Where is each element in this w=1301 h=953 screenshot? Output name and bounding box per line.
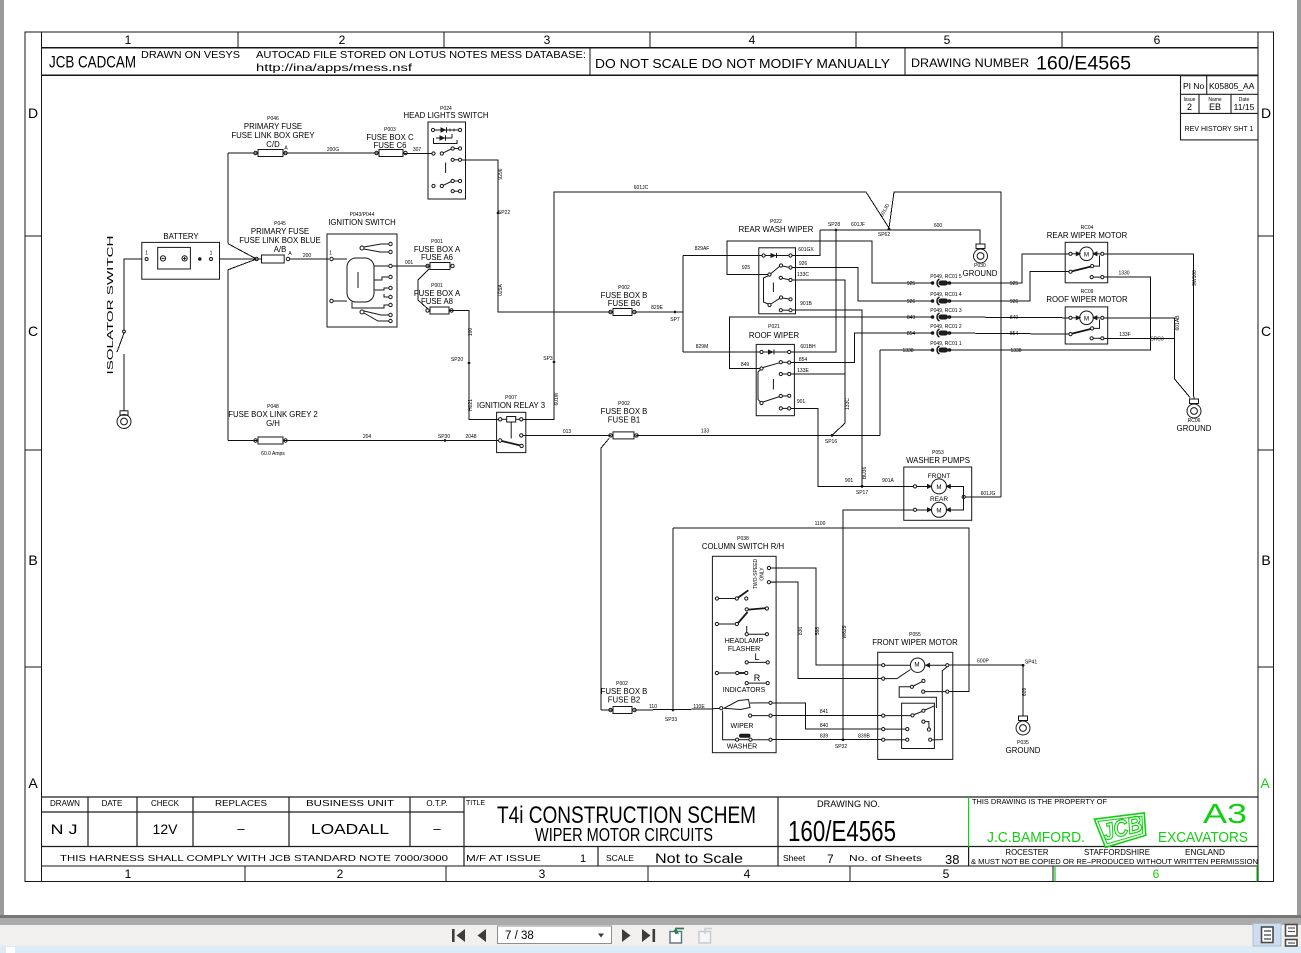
svg-text:M: M [936, 484, 941, 491]
svg-text:4: 4 [744, 867, 751, 881]
svg-text:L: L [754, 652, 759, 662]
svg-text:926: 926 [799, 261, 808, 267]
svg-text:ROOF WIPER MOTOR: ROOF WIPER MOTOR [1046, 295, 1128, 304]
svg-text:1100: 1100 [815, 521, 826, 527]
svg-text:C/D: C/D [266, 140, 280, 149]
svg-text:925: 925 [1010, 281, 1019, 287]
svg-text:PRIMARY FUSE: PRIMARY FUSE [251, 227, 309, 236]
svg-text:601GX: 601GX [798, 247, 814, 253]
svg-text:849: 849 [1010, 315, 1019, 321]
svg-text:TITLE: TITLE [466, 800, 485, 807]
svg-text:2: 2 [1187, 102, 1192, 112]
svg-text:W629: W629 [842, 625, 848, 638]
svg-text:FUSE LINK BOX BLUE: FUSE LINK BOX BLUE [239, 236, 320, 245]
svg-text:BUSINESS UNIT: BUSINESS UNIT [306, 799, 394, 808]
svg-text:SP32: SP32 [835, 744, 847, 750]
svg-text:SP22: SP22 [498, 210, 510, 216]
svg-text:SP30: SP30 [438, 434, 450, 440]
svg-text:601AB: 601AB [1175, 315, 1181, 331]
svg-text:854: 854 [1010, 331, 1019, 337]
svg-text:925: 925 [742, 265, 751, 271]
svg-text:SP28: SP28 [828, 222, 840, 228]
svg-text:FUSE A8: FUSE A8 [421, 297, 453, 306]
svg-text:1: 1 [145, 251, 148, 257]
svg-text:DRAWN: DRAWN [50, 799, 80, 808]
svg-text:2048: 2048 [465, 434, 476, 440]
svg-text:2: 2 [339, 33, 346, 47]
svg-text:6: 6 [1153, 867, 1160, 881]
svg-text:600: 600 [934, 223, 943, 229]
svg-text:609: 609 [1022, 688, 1028, 697]
svg-text:FUSE C6: FUSE C6 [374, 141, 407, 150]
svg-text:DRAWN ON VESYS: DRAWN ON VESYS [141, 49, 240, 61]
svg-text:12V: 12V [153, 821, 179, 837]
svg-text:REAR WASH WIPER: REAR WASH WIPER [739, 225, 814, 234]
svg-text:M: M [914, 662, 919, 669]
svg-text:P049, RC01 5: P049, RC01 5 [930, 274, 962, 280]
svg-text:029A: 029A [498, 284, 504, 296]
svg-text:1: 1 [210, 251, 213, 257]
svg-text:FUSE B2: FUSE B2 [608, 696, 641, 705]
svg-text:B: B [28, 552, 37, 568]
svg-text:GROUND: GROUND [1177, 424, 1212, 433]
svg-text:THIS DRAWING IS THE PROPER: THIS DRAWING IS THE PROPERTY OF [972, 799, 1107, 806]
svg-text:THIS HARNESS SHALL COMPLY: THIS HARNESS SHALL COMPLY WITH JCB STAND… [60, 853, 448, 863]
svg-text:204: 204 [363, 434, 372, 440]
svg-text:110E: 110E [693, 704, 705, 710]
svg-text:C: C [28, 323, 38, 339]
svg-text:Not to Scale: Not to Scale [655, 850, 743, 866]
svg-text:O.T.P.: O.T.P. [426, 799, 447, 808]
svg-text:A3: A3 [1203, 798, 1247, 829]
svg-text:SP41: SP41 [1025, 660, 1037, 666]
svg-text:839: 839 [820, 734, 829, 740]
svg-text:P049, RC01 2: P049, RC01 2 [930, 324, 962, 330]
svg-text:601JC: 601JC [634, 185, 649, 191]
svg-text:2: 2 [337, 867, 344, 881]
svg-text:REAR WIPER MOTOR: REAR WIPER MOTOR [1047, 231, 1128, 240]
svg-text:FUSE A6: FUSE A6 [421, 253, 453, 262]
svg-text:HEADLAMP: HEADLAMP [725, 638, 764, 645]
svg-text:JCB CADCAM: JCB CADCAM [49, 54, 136, 72]
svg-text:1: 1 [580, 853, 586, 865]
svg-text:INDICATORS: INDICATORS [723, 687, 766, 694]
svg-text:HEAD LIGHTS SWITCH: HEAD LIGHTS SWITCH [404, 111, 489, 120]
svg-text:COLUMN SWITCH R/H: COLUMN SWITCH R/H [702, 542, 784, 551]
svg-text:G/H: G/H [266, 419, 280, 428]
svg-text:REAR: REAR [930, 496, 948, 503]
svg-text:926: 926 [907, 299, 916, 305]
svg-text:600P: 600P [977, 659, 989, 665]
svg-text:WASHER PUMPS: WASHER PUMPS [906, 456, 970, 465]
svg-text:FUSE B1: FUSE B1 [608, 416, 641, 425]
svg-text:200: 200 [303, 253, 312, 259]
svg-text:7 / 38: 7 / 38 [505, 930, 534, 942]
svg-text:SCALE: SCALE [606, 853, 634, 863]
svg-text:N J: N J [51, 821, 78, 837]
svg-text:FUSE LINK BOX GREY: FUSE LINK BOX GREY [231, 131, 315, 140]
svg-text:DATE: DATE [102, 799, 123, 808]
svg-text:Sheet: Sheet [783, 853, 806, 863]
svg-text:J.C.BAMFORD.: J.C.BAMFORD. [987, 829, 1085, 846]
svg-text:ONLY: ONLY [760, 567, 766, 581]
svg-text:REPLACES: REPLACES [215, 799, 267, 808]
svg-text:926: 926 [1010, 299, 1019, 305]
svg-text:ROCESTER: ROCESTER [1006, 847, 1049, 857]
svg-text:4: 4 [749, 33, 756, 47]
svg-text:IGNITION RELAY 3: IGNITION RELAY 3 [477, 401, 545, 410]
svg-text:1338: 1338 [1010, 348, 1021, 354]
svg-text:849: 849 [907, 315, 916, 321]
svg-text:SP62: SP62 [878, 232, 890, 238]
svg-text:841: 841 [820, 709, 829, 715]
svg-text:11/15: 11/15 [1234, 102, 1255, 112]
svg-text:901A: 901A [882, 478, 894, 484]
svg-text:A: A [1260, 775, 1270, 791]
svg-text:854: 854 [799, 357, 808, 363]
svg-text:3: 3 [539, 867, 546, 881]
svg-text:160/E4565: 160/E4565 [788, 816, 896, 848]
svg-text:PRIMARY FUSE: PRIMARY FUSE [244, 122, 302, 131]
svg-text:ROOF WIPER: ROOF WIPER [749, 331, 800, 340]
svg-text:LOADALL: LOADALL [311, 821, 389, 838]
svg-text:200G: 200G [327, 147, 339, 153]
svg-text:307: 307 [413, 147, 422, 153]
svg-text:–: – [237, 821, 245, 836]
svg-text:BU36: BU36 [862, 467, 868, 480]
svg-text:7: 7 [827, 852, 834, 866]
svg-text:100: 100 [468, 328, 474, 337]
svg-text:M: M [936, 507, 941, 514]
svg-text:P049, RC01 3: P049, RC01 3 [930, 308, 962, 314]
svg-text:1: 1 [329, 251, 332, 257]
svg-text:AUTOCAD FILE STORED ON LOT: AUTOCAD FILE STORED ON LOTUS NOTES MESS … [256, 49, 586, 61]
svg-text:EB: EB [1209, 102, 1221, 112]
svg-text:PI No: PI No [1183, 81, 1205, 91]
svg-text:SRC3: SRC3 [1150, 337, 1164, 343]
svg-text:D: D [28, 105, 38, 121]
svg-text:6: 6 [1154, 33, 1161, 47]
svg-text:901: 901 [797, 399, 806, 405]
svg-text:160/E4565: 160/E4565 [1036, 54, 1131, 75]
svg-text:133E: 133E [797, 368, 809, 374]
svg-text:SP3: SP3 [543, 356, 553, 362]
svg-text:M: M [1084, 315, 1089, 322]
svg-text:925: 925 [907, 281, 916, 287]
svg-text:5: 5 [943, 867, 950, 881]
svg-text:K05805_AA: K05805_AA [1209, 81, 1255, 91]
svg-text:854: 854 [907, 331, 916, 337]
svg-text:3: 3 [544, 33, 551, 47]
svg-text:5: 5 [944, 33, 951, 47]
svg-text:1: 1 [125, 867, 132, 881]
svg-text:IGNITION SWITCH: IGNITION SWITCH [328, 218, 396, 227]
svg-text:A: A [28, 775, 38, 791]
svg-text:829E: 829E [651, 305, 663, 311]
svg-text:849: 849 [741, 362, 750, 368]
svg-text:901B: 901B [800, 301, 812, 307]
svg-text:840: 840 [820, 723, 829, 729]
svg-text:C: C [1261, 323, 1271, 339]
svg-text:P021: P021 [768, 324, 780, 330]
svg-text:R: R [754, 673, 761, 683]
svg-text:BATTERY: BATTERY [163, 232, 199, 241]
svg-text:839B: 839B [858, 734, 870, 740]
svg-text:9W100: 9W100 [1192, 270, 1198, 286]
svg-text:P049, RC01 1: P049, RC01 1 [930, 341, 962, 347]
svg-text:A/B: A/B [274, 245, 287, 254]
svg-text:WIPER MOTOR CIRCUITS: WIPER MOTOR CIRCUITS [535, 825, 713, 845]
svg-text:B: B [1261, 552, 1270, 568]
svg-text:STAFFORDSHIRE: STAFFORDSHIRE [1084, 847, 1150, 857]
svg-text:133: 133 [701, 429, 710, 435]
svg-text:DO NOT SCALE DO NOT MODIF: DO NOT SCALE DO NOT MODIFY MANUALLY [595, 56, 890, 71]
svg-text:CHECK: CHECK [151, 799, 180, 808]
svg-text:& MUST NOT BE COPIED OR: & MUST NOT BE COPIED OR RE–PRODUCED WITH… [971, 857, 1258, 866]
svg-text:WASHER: WASHER [727, 744, 757, 751]
svg-text:FRONT WIPER MOTOR: FRONT WIPER MOTOR [872, 638, 958, 647]
svg-text:P049, RC01 4: P049, RC01 4 [930, 292, 962, 298]
svg-text:ENGLAND: ENGLAND [1185, 847, 1225, 857]
svg-text:1330: 1330 [1118, 271, 1129, 277]
svg-text:M/F AT ISSUE: M/F AT ISSUE [466, 853, 541, 863]
svg-text:133F: 133F [1119, 332, 1130, 338]
svg-text:D: D [1261, 105, 1271, 121]
svg-text:9296: 9296 [498, 168, 504, 179]
svg-text:1338: 1338 [902, 348, 913, 354]
svg-text:1: 1 [125, 33, 132, 47]
svg-text:SP16: SP16 [825, 439, 837, 445]
svg-text:598: 598 [815, 627, 821, 636]
svg-text:FRONT: FRONT [928, 473, 950, 480]
svg-text:601BH: 601BH [800, 344, 816, 350]
svg-text:SP7: SP7 [670, 317, 680, 323]
svg-text:38: 38 [945, 852, 959, 867]
svg-text:013: 013 [563, 429, 572, 435]
svg-text:M: M [1084, 251, 1089, 258]
svg-text:601JF: 601JF [851, 222, 865, 228]
svg-text:REV HISTORY SHT 1: REV HISTORY SHT 1 [1185, 126, 1254, 133]
svg-text:836: 836 [798, 627, 804, 636]
svg-text:EXCAVATORS: EXCAVATORS [1158, 829, 1248, 846]
svg-text:DRAWING NUMBER: DRAWING NUMBER [911, 56, 1029, 70]
svg-text:GROUND: GROUND [1006, 746, 1041, 755]
svg-text:No. of Sheets: No. of Sheets [849, 853, 922, 863]
svg-text:TWO-SPEED: TWO-SPEED [753, 558, 759, 589]
svg-text:SP17: SP17 [856, 490, 868, 496]
svg-text:133C: 133C [797, 272, 809, 278]
svg-text:601W: 601W [554, 392, 560, 405]
svg-text:60.0 Amps: 60.0 Amps [261, 451, 285, 457]
svg-text:829M: 829M [696, 344, 709, 350]
svg-text:901: 901 [845, 478, 854, 484]
svg-text:SP33: SP33 [665, 717, 677, 723]
svg-text:FUSE BOX LINK GREY 2: FUSE BOX LINK GREY 2 [228, 410, 318, 419]
svg-text:SP20: SP20 [451, 357, 463, 363]
svg-text:601JG: 601JG [981, 491, 996, 497]
svg-text:WIPER: WIPER [731, 723, 754, 730]
svg-text:H021: H021 [468, 399, 474, 411]
svg-text:133C: 133C [845, 398, 851, 410]
svg-text:GROUND: GROUND [963, 269, 998, 278]
svg-text:829AF: 829AF [695, 246, 710, 252]
svg-text:110: 110 [649, 704, 657, 710]
svg-text:http://ina/apps/mess.nsf: http://ina/apps/mess.nsf [256, 62, 412, 74]
svg-text:FUSE B6: FUSE B6 [608, 299, 641, 308]
svg-text:ISOLATOR SWITCH: ISOLATOR SWITCH [105, 236, 115, 375]
svg-text:001: 001 [405, 260, 414, 266]
svg-text:–: – [433, 821, 441, 836]
svg-text:DRAWING NO.: DRAWING NO. [817, 799, 880, 809]
